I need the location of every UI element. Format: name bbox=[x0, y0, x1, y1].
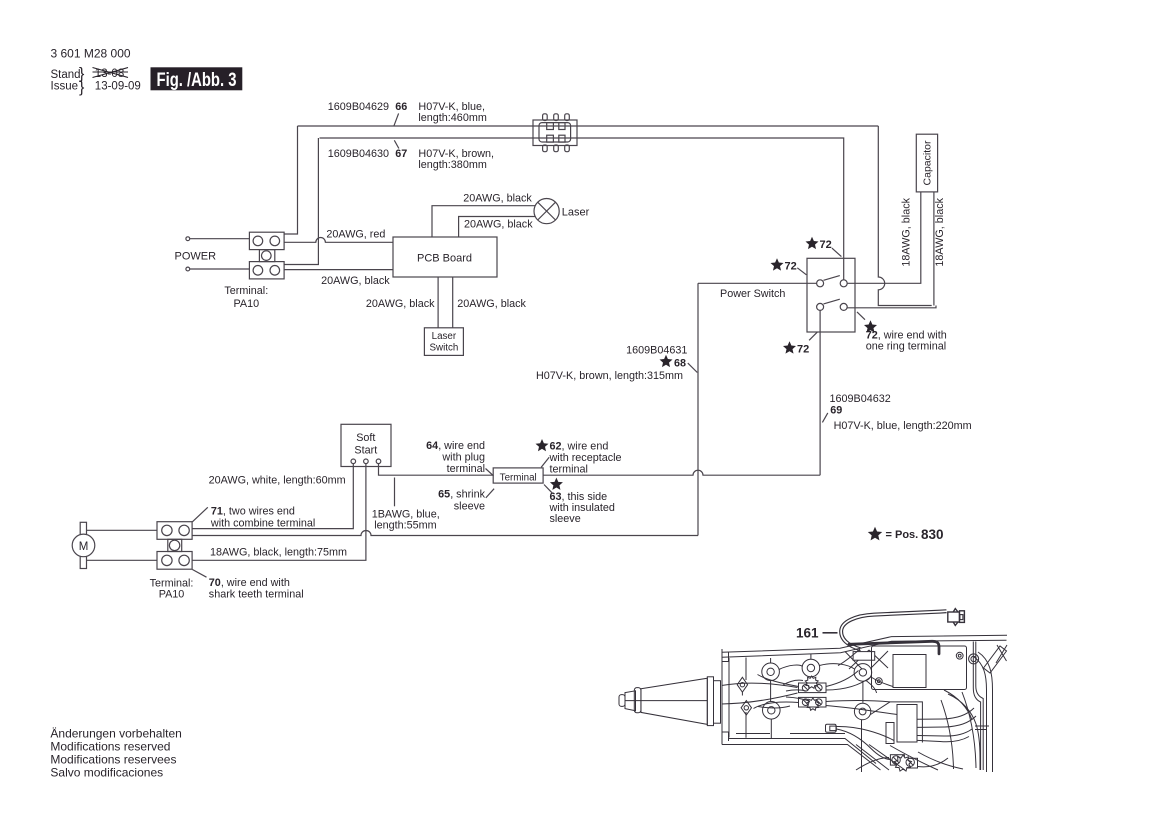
svg-text:1609B04630: 1609B04630 bbox=[328, 148, 389, 160]
clamp fingers bbox=[547, 123, 554, 130]
svg-text:20AWG, black: 20AWG, black bbox=[321, 275, 390, 287]
small clip rect bbox=[826, 724, 837, 732]
lower module rect bbox=[897, 705, 917, 743]
leader 62 bbox=[541, 457, 549, 467]
leader 70 bbox=[192, 570, 206, 578]
svg-text:Salvo modificaciones: Salvo modificaciones bbox=[50, 766, 163, 780]
inner wall verticals right bbox=[973, 642, 983, 771]
svg-text:20AWG, black: 20AWG, black bbox=[463, 192, 532, 204]
wires from terminal block left bbox=[754, 675, 799, 709]
figure label box bbox=[151, 67, 243, 91]
svg-text:13-09-09: 13-09-09 bbox=[95, 81, 141, 93]
leader 63 bbox=[544, 485, 552, 493]
svg-text:69: 69 bbox=[830, 405, 842, 417]
laser switch box bbox=[424, 328, 463, 356]
svg-text:20AWG, white, length:60mm: 20AWG, white, length:60mm bbox=[209, 474, 346, 486]
wire into bottom gear bbox=[856, 758, 948, 771]
svg-text:1609B04631: 1609B04631 bbox=[626, 345, 687, 357]
switch lever upper bbox=[824, 276, 840, 281]
svg-text:Stand: Stand bbox=[51, 69, 81, 81]
wire 69 from lower left contact bbox=[819, 310, 821, 475]
cord inside housing bbox=[849, 641, 939, 654]
svg-text:terminal: terminal bbox=[550, 464, 588, 476]
svg-text:18AWG, black, length:75mm: 18AWG, black, length:75mm bbox=[210, 547, 347, 559]
X lines right bbox=[996, 645, 1007, 663]
capacitor box bbox=[916, 134, 937, 192]
switch contact upper left bbox=[817, 280, 824, 287]
svg-text:Terminal: Terminal bbox=[500, 473, 537, 484]
svg-text:H07V-K, brown, length:315mm: H07V-K, brown, length:315mm bbox=[536, 370, 683, 382]
PCB board box bbox=[393, 237, 497, 277]
svg-text:64, wire end: 64, wire end bbox=[426, 440, 485, 452]
svg-text:Änderungen vorbehalten: Änderungen vorbehalten bbox=[50, 727, 181, 741]
cord end wisp upper bbox=[783, 680, 806, 691]
gear star top bbox=[805, 676, 818, 688]
svg-text:20AWG, black: 20AWG, black bbox=[366, 298, 435, 310]
svg-text:POWER: POWER bbox=[175, 251, 217, 263]
svg-text:Laser: Laser bbox=[432, 331, 457, 342]
switch contact lower left bbox=[817, 303, 824, 310]
wire bundle S right bbox=[944, 690, 980, 770]
svg-text:Capacitor: Capacitor bbox=[922, 140, 934, 185]
wire motor to upper block bbox=[87, 529, 158, 531]
wire 67 top run bbox=[320, 138, 844, 280]
power lead terminal circle top bbox=[186, 237, 190, 241]
supply cord band bottom bbox=[722, 693, 798, 704]
svg-text:Terminal:: Terminal: bbox=[224, 285, 268, 297]
leader star 72 bottom bbox=[809, 332, 817, 340]
inner bottom rail bbox=[736, 733, 845, 735]
svg-text:3 601 M28 000: 3 601 M28 000 bbox=[51, 47, 131, 61]
svg-text:72: 72 bbox=[785, 261, 797, 273]
star legend bbox=[868, 527, 882, 541]
old date struck through bbox=[93, 68, 129, 81]
housing left edge bbox=[721, 649, 723, 745]
X ribs near cord entry bbox=[845, 650, 888, 669]
svg-text:20AWG, black: 20AWG, black bbox=[464, 219, 533, 231]
svg-text:Switch: Switch bbox=[429, 342, 458, 353]
screw top right bbox=[956, 652, 963, 659]
wire pin2 to lower motor terminal bbox=[192, 464, 366, 561]
laser lamp symbol bbox=[534, 199, 559, 224]
brush cap lower bbox=[741, 701, 751, 715]
svg-text:M: M bbox=[79, 541, 89, 553]
spindle axis line bbox=[625, 700, 707, 702]
gear star bottom bbox=[806, 698, 819, 710]
label wire 68 bbox=[536, 345, 687, 383]
switch contact lower right bbox=[840, 303, 847, 310]
svg-text:with combine terminal: with combine terminal bbox=[210, 517, 315, 529]
wire pin3 to terminal splice bbox=[379, 464, 494, 476]
fan wires from lower module bbox=[917, 708, 976, 742]
lower module side tab bbox=[886, 723, 894, 744]
power lead terminal circle bottom bbox=[186, 267, 190, 271]
motor terminal upper block bbox=[157, 522, 192, 540]
wire 68 horizontal with hop bbox=[192, 531, 698, 536]
svg-text:Modifications reservees: Modifications reservees bbox=[50, 753, 176, 767]
svg-text:sleeve: sleeve bbox=[454, 501, 485, 513]
wire harness to cord entry bbox=[838, 649, 893, 687]
leader 18AWG blue bbox=[394, 478, 396, 507]
rib verticals bbox=[746, 654, 863, 739]
power switch box bbox=[807, 258, 855, 332]
svg-text:Soft: Soft bbox=[356, 432, 375, 444]
wire 68 riser bbox=[697, 283, 699, 535]
wire PCB to laser upper bbox=[432, 206, 535, 237]
cord end wisp lower bbox=[758, 697, 810, 708]
svg-text:Fig. /Abb. 3: Fig. /Abb. 3 bbox=[157, 70, 237, 91]
screw below module bbox=[875, 678, 882, 685]
svg-text:H07V-K, blue, length:220mm: H07V-K, blue, length:220mm bbox=[834, 420, 972, 432]
lower module enclosure bbox=[871, 702, 923, 743]
rib below boss5 bbox=[861, 720, 863, 773]
soft start pin 1 bbox=[351, 459, 356, 464]
switch contact upper right bbox=[840, 280, 847, 287]
svg-text:Modifications reserved: Modifications reserved bbox=[50, 740, 170, 754]
wire PCB to laser switch left bbox=[437, 277, 439, 328]
cable clamp outer bbox=[533, 120, 577, 146]
housing left notch bottom bbox=[722, 732, 729, 741]
ring grommet bbox=[969, 654, 979, 664]
gear flange plate inner bbox=[714, 681, 721, 724]
wire power bottom lead bbox=[190, 268, 250, 270]
gear flange plate outer bbox=[707, 677, 713, 726]
terminal PA10 upper block bbox=[249, 232, 284, 249]
capacitor right lead bbox=[933, 192, 935, 306]
label 64 plug terminal bbox=[426, 440, 485, 475]
wire 66 top run bbox=[298, 125, 879, 127]
wires from terminal block right bbox=[826, 671, 897, 715]
svg-text:72: 72 bbox=[820, 239, 832, 251]
svg-text:length:460mm: length:460mm bbox=[418, 112, 486, 124]
svg-text:with receptacle: with receptacle bbox=[549, 452, 622, 464]
svg-text:= Pos.: = Pos. bbox=[886, 529, 919, 541]
handle step bar bbox=[975, 726, 989, 730]
wire 69 horizontal with hop to terminal bbox=[543, 470, 820, 475]
housing bottom edge bbox=[722, 745, 881, 771]
cable clamp inner bbox=[539, 123, 571, 142]
clamp tabs top bbox=[543, 114, 548, 121]
label wire 69 bbox=[830, 393, 972, 432]
capacitor left lead from switch contact bbox=[847, 192, 921, 283]
clamp tabs bottom bbox=[543, 145, 548, 152]
brush cap upper bbox=[737, 677, 747, 695]
spindle cone small bbox=[625, 691, 636, 711]
star 62 bbox=[536, 439, 549, 451]
soft start pin 3 bbox=[376, 459, 381, 464]
label 63 insulated sleeve bbox=[549, 491, 615, 525]
spindle collar bbox=[634, 688, 641, 713]
svg-text:70, wire end with: 70, wire end with bbox=[209, 577, 290, 589]
star 63 bbox=[550, 478, 563, 490]
field terminal block row1 bbox=[799, 683, 827, 693]
housing bottom inner bbox=[729, 739, 876, 764]
boss top middle bbox=[802, 659, 820, 677]
soft start pin 2 bbox=[364, 459, 369, 464]
svg-text:length:380mm: length:380mm bbox=[418, 159, 486, 171]
wire from lower right contact to capacitor lead bbox=[847, 306, 936, 308]
soft start box bbox=[341, 424, 391, 466]
housing top edge inner bbox=[722, 640, 1007, 657]
inner housing left vertical bbox=[728, 658, 730, 738]
cable 161 connector plug body bbox=[948, 609, 965, 626]
terminal PA10 lower block bbox=[249, 262, 284, 279]
motor shaft bar bbox=[80, 522, 86, 568]
wire power top lead bbox=[190, 238, 250, 240]
label 67 leader bbox=[394, 140, 399, 148]
leader 71 bbox=[192, 507, 207, 522]
svg-text:terminal: terminal bbox=[447, 463, 485, 475]
svg-text:20AWG, black: 20AWG, black bbox=[457, 298, 526, 310]
leader star 72 left bbox=[797, 268, 806, 275]
spindle main cone bbox=[641, 678, 707, 724]
svg-text:65, shrink: 65, shrink bbox=[438, 489, 485, 501]
label wire 67 bbox=[328, 148, 494, 171]
svg-text:one ring terminal: one ring terminal bbox=[866, 340, 946, 352]
boss bottom left bbox=[763, 702, 781, 720]
wire PCB to laser lower bbox=[459, 217, 536, 238]
svg-text:Issue: Issue bbox=[51, 81, 79, 93]
wire 20AWG black lower bbox=[284, 269, 393, 271]
boss3 pigtail bbox=[866, 681, 877, 694]
switch feed wire from node bbox=[698, 282, 817, 284]
svg-text:20AWG, red: 20AWG, red bbox=[326, 229, 385, 241]
leader 65 bbox=[486, 489, 494, 498]
svg-text:Laser: Laser bbox=[562, 207, 590, 219]
svg-text:with plug: with plug bbox=[441, 452, 485, 464]
svg-text:}: } bbox=[79, 79, 85, 96]
wire 66 right riser with hop over switch feed bbox=[878, 126, 931, 306]
svg-text:length:55mm: length:55mm bbox=[374, 519, 436, 531]
svg-text:67: 67 bbox=[395, 148, 407, 160]
boss top right bbox=[854, 664, 872, 682]
PCB module rect bbox=[872, 646, 967, 690]
leader star 72 ring bbox=[857, 312, 865, 320]
footer modifications text bbox=[50, 727, 181, 780]
housing left notch top bbox=[722, 653, 729, 662]
leader 161 dash bbox=[823, 632, 838, 634]
svg-text:18AWG, black: 18AWG, black bbox=[934, 197, 946, 266]
motor terminal middle coupler bbox=[168, 539, 182, 551]
wire motor to lower block bbox=[87, 559, 158, 561]
leader star 72 top bbox=[832, 248, 842, 257]
svg-text:62, wire end: 62, wire end bbox=[550, 441, 609, 453]
small rect top center bbox=[853, 652, 875, 661]
star 72 top bbox=[806, 237, 819, 249]
bottom right vertical curves bbox=[941, 692, 976, 769]
star 72 ring terminal bbox=[864, 320, 877, 332]
svg-text:sleeve: sleeve bbox=[550, 513, 581, 525]
terminal splice box bbox=[493, 468, 543, 484]
rib link bosses top bbox=[779, 664, 855, 670]
svg-text:1609B04632: 1609B04632 bbox=[830, 393, 891, 405]
spindle tip bbox=[619, 695, 625, 707]
label 65 shrink sleeve bbox=[438, 489, 485, 513]
label 68 leader bbox=[688, 363, 698, 372]
boss bottom right bbox=[854, 703, 870, 719]
star 72 left bbox=[771, 258, 784, 270]
handle front inner curve bbox=[974, 657, 987, 772]
star 72 bottom bbox=[783, 341, 796, 353]
wire PCB to laser switch right bbox=[452, 277, 454, 328]
svg-text:1609B04629: 1609B04629 bbox=[328, 101, 389, 113]
label wire 66 bbox=[328, 101, 487, 124]
wire clip second bbox=[837, 726, 895, 740]
wire 20AWG red with hop bbox=[284, 237, 393, 242]
svg-text:18AWG, black: 18AWG, black bbox=[901, 197, 913, 266]
boss top left bbox=[762, 663, 780, 681]
wire from clip to lower right bbox=[837, 729, 892, 760]
wire 67 riser from terminal bbox=[284, 138, 318, 265]
svg-text:71, two wires end: 71, two wires end bbox=[211, 505, 295, 517]
motor terminal lower block bbox=[157, 552, 192, 570]
svg-text:PA10: PA10 bbox=[233, 298, 259, 310]
switch lever lower bbox=[824, 299, 840, 304]
svg-text:Start: Start bbox=[354, 445, 377, 457]
slanted brush tube bbox=[984, 646, 1007, 673]
housing top edge bbox=[722, 635, 1007, 652]
label 66 leader bbox=[394, 113, 399, 126]
bottom gear star bbox=[890, 755, 917, 771]
white module square bbox=[893, 655, 926, 688]
svg-text:PCB Board: PCB Board bbox=[417, 253, 472, 265]
svg-text:shark teeth terminal: shark teeth terminal bbox=[209, 588, 304, 600]
leader 64 bbox=[486, 469, 494, 476]
svg-text:72: 72 bbox=[797, 344, 809, 356]
svg-text:161: 161 bbox=[796, 625, 819, 640]
supply cord band top bbox=[722, 683, 798, 687]
svg-text:830: 830 bbox=[921, 527, 944, 542]
cable 161 loop outline bbox=[841, 611, 946, 649]
wire pin1 white to motor terminal bbox=[192, 464, 353, 529]
label 62 receptacle bbox=[549, 441, 622, 476]
terminal PA10 middle coupler bbox=[259, 250, 274, 262]
wire 66 riser from terminal bbox=[284, 126, 297, 234]
bottom right diagonal wires bbox=[856, 745, 963, 771]
svg-text:68: 68 bbox=[674, 358, 686, 370]
motor circle bbox=[72, 534, 95, 557]
svg-text:66: 66 bbox=[395, 101, 407, 113]
field terminal block row2 bbox=[799, 697, 827, 707]
svg-text:Power Switch: Power Switch bbox=[720, 288, 785, 300]
label 69 leader bbox=[822, 413, 827, 423]
handle front outer curve bbox=[978, 652, 993, 772]
svg-text:PA10: PA10 bbox=[159, 589, 185, 601]
